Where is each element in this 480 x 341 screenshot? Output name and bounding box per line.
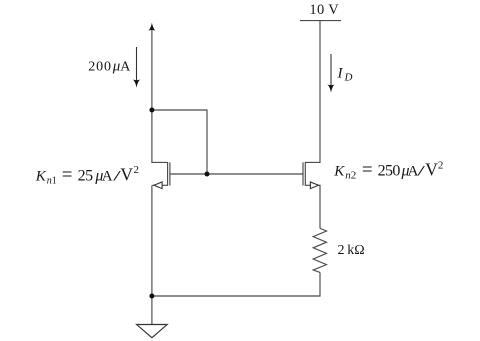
svg-text:I: I: [337, 66, 344, 82]
svg-text:A: A: [102, 168, 113, 184]
svg-text:=: =: [62, 164, 73, 185]
svg-text:2: 2: [134, 164, 140, 176]
svg-text:250: 250: [378, 163, 401, 180]
svg-text:25: 25: [78, 167, 94, 184]
svg-text:V: V: [120, 164, 133, 184]
svg-text:10: 10: [309, 2, 324, 18]
svg-text:K: K: [35, 168, 47, 184]
svg-text:A: A: [120, 60, 131, 75]
svg-text:=: =: [362, 160, 373, 181]
svg-text:200: 200: [88, 60, 112, 75]
svg-text:2 kΩ: 2 kΩ: [338, 243, 365, 258]
svg-text:V: V: [328, 2, 339, 18]
svg-text:n2: n2: [345, 170, 356, 182]
svg-text:2: 2: [438, 159, 444, 171]
svg-text:D: D: [344, 71, 353, 83]
svg-text:n1: n1: [47, 175, 57, 186]
svg-text:K: K: [333, 164, 345, 180]
svg-text:V: V: [425, 160, 438, 180]
